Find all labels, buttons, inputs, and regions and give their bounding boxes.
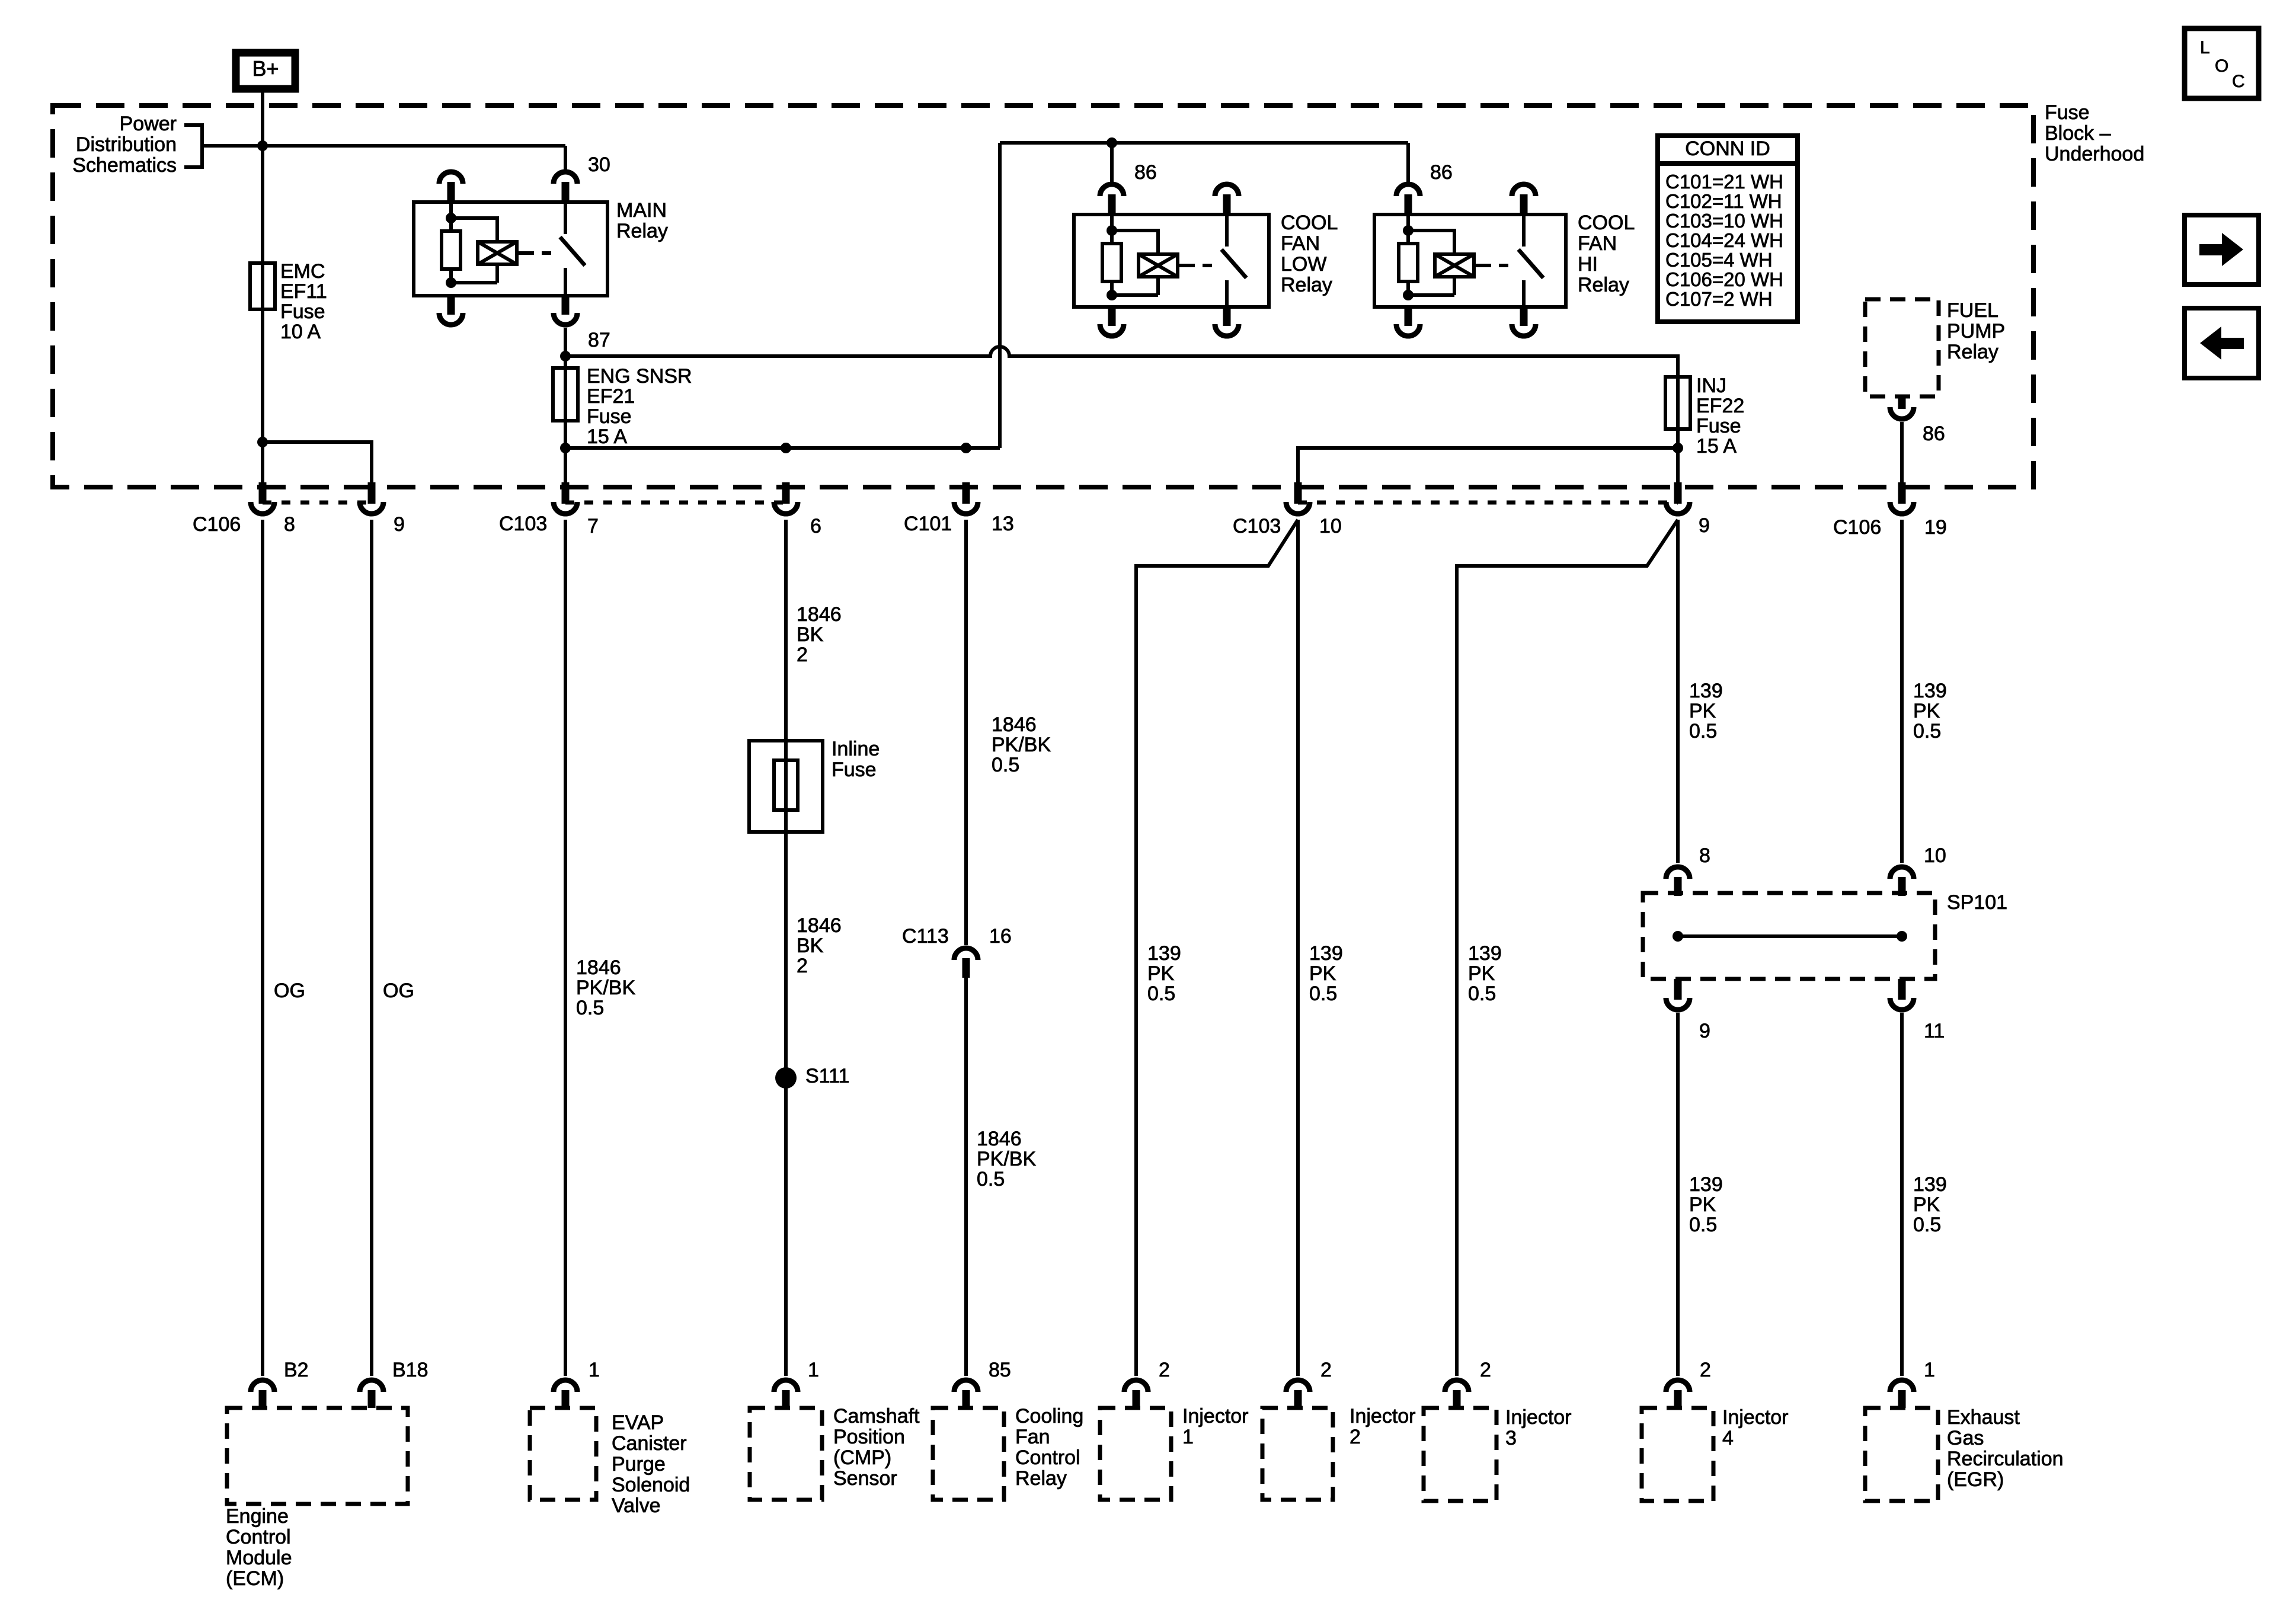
connector body C103 (pins 10-9)	[1298, 501, 1678, 505]
wire 1846 PK/BK to EVAP valve	[564, 520, 567, 1376]
svg-text:6: 6	[810, 515, 821, 537]
label wire 139 PK 0.5 (EGR lower)	[1913, 1173, 1947, 1236]
fuse EMC EF11 10A	[250, 263, 275, 309]
label fuse ENG SNSR EF21	[587, 365, 692, 448]
svg-text:Relay: Relay	[1578, 274, 1629, 296]
label pin 9 (injector feed)	[1699, 514, 1710, 537]
svg-text:1846: 1846	[992, 713, 1037, 736]
connector SP101 pin 11	[1890, 979, 1945, 1042]
label wire 139 PK 0.5 (injector 1)	[1147, 942, 1181, 1005]
svg-text:Sensor: Sensor	[833, 1467, 897, 1490]
svg-text:MAIN: MAIN	[616, 199, 667, 222]
svg-text:139: 139	[1913, 680, 1947, 702]
pin 87 label	[588, 329, 610, 351]
connector block exit at x=3209	[1890, 482, 1914, 514]
svg-text:Valve: Valve	[612, 1494, 661, 1517]
svg-text:PK/BK: PK/BK	[992, 734, 1051, 756]
wire B+ down through EMC fuse to block exit	[261, 89, 264, 487]
svg-text:Solenoid: Solenoid	[612, 1474, 690, 1496]
connector injector 3 pin 2	[1445, 1359, 1491, 1408]
node branch to C101 pin 13	[961, 443, 971, 453]
connector fuel pump relay pin 86	[1890, 396, 1914, 487]
svg-text:HI: HI	[1578, 253, 1598, 276]
connector block exit at x=2831	[1666, 482, 1690, 514]
svg-text:C103: C103	[1233, 515, 1281, 537]
connector CMP sensor pin 1	[774, 1359, 819, 1408]
svg-text:10 A: 10 A	[280, 321, 321, 343]
svg-text:PK: PK	[1689, 1193, 1716, 1216]
splice pack SP101 dashed box	[1643, 893, 1935, 979]
wire pin 9 to injector 4 / SP101	[1676, 520, 1680, 863]
component injector 2 box	[1262, 1408, 1333, 1500]
label inline fuse	[832, 738, 880, 781]
label pin 9	[394, 513, 405, 536]
pin 86 label (low)	[1134, 161, 1157, 184]
svg-text:8: 8	[284, 513, 295, 536]
svg-text:Injector: Injector	[1182, 1405, 1249, 1427]
connector cool fan low switch bottom	[1215, 307, 1239, 336]
arrow right box	[2185, 215, 2259, 284]
pin 30 label	[588, 153, 610, 176]
svg-text:PK: PK	[1689, 700, 1716, 722]
svg-text:EF21: EF21	[587, 385, 635, 408]
splice S111	[775, 1067, 797, 1089]
svg-text:C103=10 WH: C103=10 WH	[1665, 210, 1783, 232]
label C103 pin 7	[499, 513, 599, 537]
svg-text:Fuse: Fuse	[2045, 101, 2090, 124]
wire SP101 pin 9 to injector 4	[1676, 1013, 1680, 1376]
connector MAIN relay coil top	[439, 172, 463, 202]
svg-text:Fuse: Fuse	[1696, 415, 1741, 437]
connector injector 2 pin 2	[1286, 1359, 1332, 1408]
label wire 1846 PK/BK 0.5 (lower)	[977, 1128, 1036, 1190]
svg-text:EMC: EMC	[280, 260, 325, 283]
svg-text:B+: B+	[252, 56, 279, 81]
CONN ID legend table	[1658, 136, 1798, 322]
svg-text:Underhood: Underhood	[2045, 143, 2144, 165]
connector body C103 (pins 7-6)	[565, 501, 786, 505]
component EVAP canister purge solenoid valve box	[530, 1408, 596, 1500]
svg-text:4: 4	[1722, 1427, 1734, 1449]
svg-text:Relay: Relay	[1015, 1467, 1067, 1490]
connector C113 pin 16 inline	[954, 948, 978, 978]
svg-text:Control: Control	[1015, 1446, 1080, 1469]
svg-text:COOL: COOL	[1578, 212, 1635, 234]
label splice S111	[805, 1065, 849, 1087]
svg-text:INJ: INJ	[1696, 375, 1726, 397]
svg-text:1846: 1846	[797, 603, 842, 626]
svg-text:Fuse: Fuse	[832, 758, 877, 781]
svg-text:2: 2	[1480, 1359, 1491, 1381]
node INJ fuse output junction	[1673, 443, 1683, 453]
svg-text:PK: PK	[1468, 962, 1495, 985]
svg-text:BK: BK	[797, 934, 824, 957]
svg-text:1: 1	[1924, 1359, 1935, 1381]
svg-text:11: 11	[1924, 1020, 1945, 1042]
connector pin 87 (MAIN relay bottom, switch)	[554, 296, 577, 356]
power distribution bracket	[184, 125, 202, 167]
svg-text:PK: PK	[1913, 1193, 1940, 1216]
label wire 1846 BK 2 (upper)	[797, 603, 842, 666]
connector body C106 (pins 8-9)	[263, 501, 372, 505]
wire OG run to ECM B18	[370, 520, 373, 1376]
svg-text:B2: B2	[284, 1359, 309, 1381]
wire 1846 PK/BK to fan control relay (lower)	[964, 978, 968, 1376]
svg-text:2: 2	[797, 644, 808, 666]
wire C103-10 to injector 1 (dogleg)	[1136, 520, 1298, 1376]
svg-text:C106: C106	[1833, 516, 1881, 539]
relay COOL FAN HI	[1374, 215, 1566, 307]
label COOL FAN HI relay	[1578, 212, 1635, 296]
svg-text:139: 139	[1468, 942, 1502, 965]
connector block exit at x=1326	[774, 482, 798, 514]
label FUEL PUMP relay	[1947, 299, 2005, 363]
label wire 139 PK 0.5 (EGR upper)	[1913, 680, 1947, 742]
svg-text:Control: Control	[226, 1526, 291, 1548]
svg-text:Purge: Purge	[612, 1453, 666, 1475]
node SP101 bus right	[1897, 931, 1907, 942]
svg-text:2: 2	[1320, 1359, 1332, 1381]
svg-text:PUMP: PUMP	[1947, 320, 2005, 343]
svg-text:1: 1	[808, 1359, 819, 1381]
svg-text:Fuse: Fuse	[280, 300, 325, 323]
svg-text:Module: Module	[226, 1547, 292, 1569]
connector SP101 pin 10	[1890, 844, 1946, 896]
svg-text:PK: PK	[1913, 700, 1940, 722]
svg-text:9: 9	[1699, 514, 1710, 537]
svg-text:SP101: SP101	[1947, 891, 2007, 914]
label fuse block underhood	[2045, 101, 2144, 165]
fuse ENG SNSR EF21 15A	[553, 356, 578, 487]
wire 1846 BK to CMP sensor	[784, 520, 788, 1376]
pin 86 label (fuel pump)	[1923, 422, 1945, 445]
svg-text:0.5: 0.5	[576, 997, 604, 1019]
svg-text:C: C	[2232, 72, 2245, 91]
label engine control module	[226, 1505, 292, 1590]
svg-text:3: 3	[1505, 1427, 1517, 1449]
connector cooling fan control relay pin 85	[954, 1359, 1011, 1408]
arrow left box	[2185, 308, 2259, 378]
connector MAIN relay coil bottom	[439, 296, 463, 325]
label EGR	[1947, 1406, 2064, 1491]
node SP101 bus left	[1673, 931, 1683, 942]
wire SP101 internal bus	[1678, 934, 1902, 938]
svg-text:COOL: COOL	[1281, 212, 1338, 234]
svg-text:0.5: 0.5	[1913, 720, 1941, 742]
label wire 139 PK 0.5 (injector 2)	[1309, 942, 1343, 1005]
node B+ junction	[257, 140, 268, 151]
connector EGR pin 1	[1890, 1359, 1935, 1408]
svg-text:FAN: FAN	[1578, 232, 1617, 255]
svg-text:PK/BK: PK/BK	[576, 977, 635, 999]
wire B+ node to MAIN relay pin 30	[263, 144, 565, 148]
connector block exit at x=627	[360, 482, 383, 514]
svg-text:Relay: Relay	[616, 220, 668, 242]
svg-text:Position: Position	[833, 1426, 905, 1448]
connector injector 4 pin 2	[1666, 1359, 1711, 1408]
svg-text:C106: C106	[193, 513, 241, 536]
label injector 3	[1505, 1406, 1572, 1449]
label wire OG (left)	[274, 980, 305, 1002]
label EVAP valve	[612, 1411, 690, 1517]
battery feed terminal B+	[236, 53, 295, 89]
connector ECM pin B2	[251, 1359, 309, 1408]
svg-text:LOW: LOW	[1281, 253, 1326, 276]
connector SP101 pin 9	[1666, 979, 1710, 1042]
label wire 1846 PK/BK 0.5 (upper)	[992, 713, 1051, 776]
svg-text:BK: BK	[797, 623, 824, 646]
svg-text:2: 2	[797, 955, 808, 977]
svg-text:Fuse: Fuse	[587, 405, 632, 428]
connector pin 30 (MAIN relay top, switch)	[554, 146, 577, 202]
svg-text:C113: C113	[902, 925, 949, 948]
label power distribution schematics	[72, 113, 177, 177]
relay FUEL PUMP (dashed box)	[1865, 299, 1939, 396]
label pin 16	[989, 925, 1012, 948]
svg-text:B18: B18	[392, 1359, 428, 1381]
svg-text:10: 10	[1319, 515, 1342, 537]
svg-text:19: 19	[1924, 516, 1947, 539]
svg-text:Relay: Relay	[1947, 341, 1998, 363]
svg-text:O: O	[2215, 56, 2228, 76]
connector cool fan hi switch top	[1512, 184, 1536, 215]
connector cool fan hi switch bottom	[1512, 307, 1536, 336]
svg-text:1: 1	[1182, 1426, 1194, 1448]
svg-text:Injector: Injector	[1505, 1406, 1572, 1429]
wire cool fan relay feed	[1000, 141, 1408, 145]
svg-text:C101=21 WH: C101=21 WH	[1665, 171, 1783, 193]
component injector 4 box	[1642, 1408, 1713, 1501]
label C106 pin 19	[1833, 516, 1947, 539]
svg-text:(EGR): (EGR)	[1947, 1468, 2004, 1491]
svg-text:7: 7	[587, 515, 599, 537]
relay MAIN (coil, resistor, contact)	[414, 202, 607, 296]
svg-text:Exhaust: Exhaust	[1947, 1406, 2020, 1429]
svg-text:0.5: 0.5	[1309, 982, 1337, 1005]
svg-text:L: L	[2200, 38, 2210, 57]
svg-text:OG: OG	[383, 980, 414, 1002]
svg-text:C105=4 WH: C105=4 WH	[1665, 249, 1773, 271]
svg-text:0.5: 0.5	[1689, 1214, 1717, 1236]
component cooling fan control relay box	[933, 1408, 1004, 1500]
svg-text:OG: OG	[274, 980, 305, 1002]
svg-text:EF11: EF11	[280, 280, 327, 303]
label MAIN relay	[616, 199, 668, 242]
label wire 1846 PK/BK 0.5 (EVAP)	[576, 956, 635, 1019]
label C113	[902, 925, 949, 948]
svg-text:9: 9	[394, 513, 405, 536]
svg-text:1: 1	[589, 1359, 600, 1381]
connector SP101 pin 8	[1666, 844, 1710, 896]
node ENG SNSR fuse output junction	[560, 443, 571, 453]
connector block exit at x=443	[251, 482, 274, 514]
connector cool fan low switch top	[1215, 184, 1239, 215]
module ECM dashed box	[227, 1408, 408, 1504]
svg-text:C106=20 WH: C106=20 WH	[1665, 268, 1783, 290]
svg-text:S111: S111	[805, 1065, 849, 1087]
component injector 1 box	[1100, 1408, 1171, 1500]
svg-text:2: 2	[1700, 1359, 1711, 1381]
svg-text:87: 87	[588, 329, 610, 351]
connector block exit at x=2190	[1286, 482, 1310, 514]
wire bracket to B+ node	[202, 144, 263, 148]
svg-text:PK/BK: PK/BK	[977, 1148, 1036, 1170]
wire SP101 pin 11 to EGR	[1900, 1013, 1904, 1376]
node 87 junction	[560, 351, 571, 361]
svg-text:C103: C103	[499, 513, 547, 535]
wire C103-10 to injector 2	[1296, 520, 1300, 1376]
svg-text:Camshaft: Camshaft	[833, 1405, 920, 1427]
label cooling fan control relay	[1015, 1405, 1083, 1490]
label wire 139 PK 0.5 (injector 3)	[1468, 942, 1502, 1005]
connector block exit at x=954	[554, 482, 577, 514]
svg-text:EVAP: EVAP	[612, 1411, 664, 1434]
connector cool fan hi coil bottom	[1396, 307, 1420, 336]
wire 1846 PK/BK to fan control relay (upper)	[964, 520, 968, 945]
svg-text:15 A: 15 A	[1696, 435, 1737, 457]
wire INJ junction to connector C103 pin 10	[1298, 448, 1678, 487]
fuse INJ EF22 15A	[1665, 377, 1690, 487]
svg-text:FUEL: FUEL	[1947, 299, 1998, 322]
svg-text:Inline: Inline	[832, 738, 880, 760]
svg-text:0.5: 0.5	[977, 1168, 1005, 1190]
label C101 pin 13	[904, 513, 1014, 535]
svg-text:C107=2 WH: C107=2 WH	[1665, 288, 1773, 310]
label fuse INJ EF22	[1696, 375, 1744, 457]
svg-text:13: 13	[992, 513, 1014, 535]
svg-text:Distribution: Distribution	[76, 133, 177, 156]
node cool fan low branch	[1107, 137, 1117, 148]
svg-text:C102=11 WH: C102=11 WH	[1665, 190, 1782, 212]
label wire 1846 BK 2 (lower)	[797, 914, 842, 977]
svg-text:86: 86	[1134, 161, 1157, 184]
svg-text:0.5: 0.5	[1468, 982, 1496, 1005]
svg-text:139: 139	[1689, 680, 1723, 702]
svg-text:PK: PK	[1309, 962, 1336, 985]
svg-text:0.5: 0.5	[1147, 982, 1175, 1005]
connector ECM pin B18	[360, 1359, 428, 1408]
LOC reference box	[2185, 28, 2259, 98]
node EMC fuse output junction	[257, 437, 268, 447]
svg-text:PK: PK	[1147, 962, 1175, 985]
svg-text:Fan: Fan	[1015, 1426, 1050, 1448]
svg-text:2: 2	[1350, 1426, 1361, 1448]
svg-text:15 A: 15 A	[587, 425, 627, 448]
svg-text:139: 139	[1913, 1173, 1947, 1196]
label C103 pin 10	[1233, 515, 1342, 537]
label pin 6	[810, 515, 821, 537]
label wire OG (right)	[383, 980, 414, 1002]
svg-text:1846: 1846	[977, 1128, 1022, 1150]
fuse block underhood dashed boundary	[53, 105, 2033, 487]
connector cool fan low coil top pin 86	[1100, 143, 1124, 215]
svg-text:Relay: Relay	[1281, 274, 1332, 296]
label C106 pin 8	[193, 513, 295, 536]
svg-text:1846: 1846	[797, 914, 842, 937]
label wire 139 PK 0.5 (injector 4 upper)	[1689, 680, 1723, 742]
svg-text:Injector: Injector	[1350, 1405, 1416, 1427]
connector cool fan low coil bottom	[1100, 307, 1124, 336]
relay COOL FAN LOW	[1074, 215, 1269, 307]
svg-text:C104=24 WH: C104=24 WH	[1665, 229, 1783, 251]
wire riser to cool fan relays	[998, 143, 1002, 448]
label injector 4	[1722, 1406, 1789, 1449]
svg-text:Schematics: Schematics	[72, 154, 177, 177]
label CMP sensor	[833, 1405, 920, 1490]
svg-text:(CMP): (CMP)	[833, 1446, 891, 1469]
svg-text:C101: C101	[904, 513, 952, 535]
wire 87 to INJ fuse (hops riser)	[565, 347, 1678, 377]
svg-text:9: 9	[1699, 1020, 1710, 1042]
svg-text:FAN: FAN	[1281, 232, 1320, 255]
svg-text:139: 139	[1147, 942, 1181, 965]
label injector 2	[1350, 1405, 1416, 1448]
connector EVAP valve pin 1	[554, 1359, 600, 1408]
svg-text:30: 30	[588, 153, 610, 176]
wire OG run to ECM B2	[261, 520, 264, 1376]
label COOL FAN LOW relay	[1281, 212, 1338, 296]
svg-text:0.5: 0.5	[1689, 720, 1717, 742]
node branch to CMP pin 6	[781, 443, 791, 453]
svg-text:Canister: Canister	[612, 1432, 687, 1455]
svg-text:86: 86	[1430, 161, 1453, 184]
pin 86 label (hi)	[1430, 161, 1453, 184]
svg-text:139: 139	[1689, 1173, 1723, 1196]
svg-text:Block –: Block –	[2045, 122, 2111, 145]
svg-text:139: 139	[1309, 942, 1343, 965]
inline fuse	[749, 741, 823, 832]
connector injector 1 pin 2	[1124, 1359, 1170, 1408]
svg-text:8: 8	[1699, 844, 1710, 867]
svg-text:85: 85	[989, 1359, 1011, 1381]
wire branch to connector C106 pin 9	[263, 442, 372, 487]
svg-text:10: 10	[1924, 844, 1946, 867]
svg-text:Engine: Engine	[226, 1505, 289, 1528]
svg-text:EF22: EF22	[1696, 395, 1744, 417]
svg-text:86: 86	[1923, 422, 1945, 445]
svg-text:CONN ID: CONN ID	[1685, 137, 1770, 160]
component injector 3 box	[1424, 1408, 1496, 1501]
wire pin 9 to injector 3 (dogleg)	[1457, 520, 1678, 1376]
svg-text:16: 16	[989, 925, 1012, 948]
connector cool fan hi coil top pin 86	[1396, 143, 1420, 215]
label fuse EMC EF11	[280, 260, 327, 343]
wire bus 15A feed to risers	[565, 446, 1000, 450]
svg-text:0.5: 0.5	[1913, 1214, 1941, 1236]
svg-text:0.5: 0.5	[992, 754, 1019, 776]
svg-text:(ECM): (ECM)	[226, 1567, 284, 1590]
svg-text:ENG SNSR: ENG SNSR	[587, 365, 692, 388]
label SP101	[1947, 891, 2007, 914]
svg-text:Cooling: Cooling	[1015, 1405, 1083, 1427]
label wire 139 PK 0.5 (injector 4 lower)	[1689, 1173, 1723, 1236]
svg-text:Injector: Injector	[1722, 1406, 1789, 1429]
connector block exit at x=1630	[954, 482, 978, 514]
svg-text:Gas: Gas	[1947, 1427, 1984, 1449]
component EGR box	[1865, 1408, 1938, 1501]
svg-text:1846: 1846	[576, 956, 621, 979]
component camshaft position sensor box	[750, 1408, 822, 1500]
svg-text:Recirculation: Recirculation	[1947, 1448, 2064, 1470]
svg-text:2: 2	[1159, 1359, 1170, 1381]
label injector 1	[1182, 1405, 1249, 1448]
wire fuel pump 86 to EGR / SP101	[1900, 520, 1904, 863]
svg-text:Power: Power	[120, 113, 177, 135]
